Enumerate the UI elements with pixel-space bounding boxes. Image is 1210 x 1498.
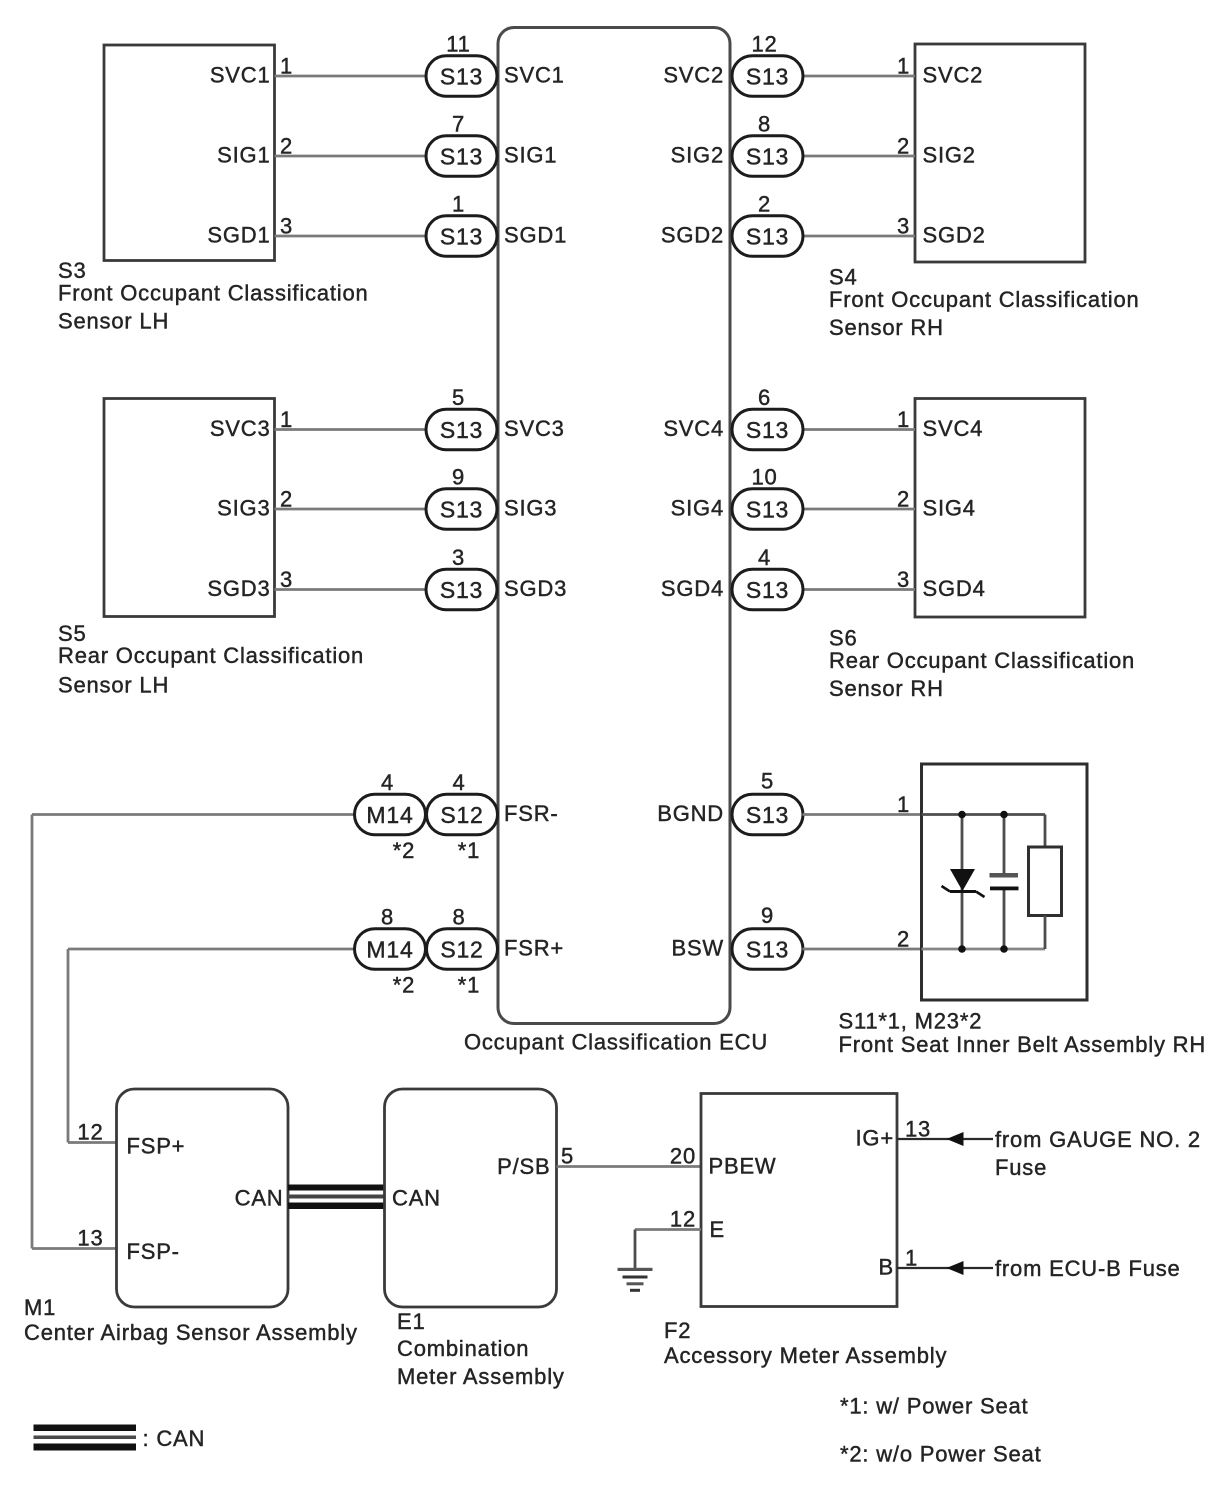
svg-text:2: 2 [280, 134, 293, 159]
svg-text:S13: S13 [746, 143, 789, 169]
svg-text:1: 1 [897, 792, 910, 817]
svg-text:SGD3: SGD3 [504, 576, 567, 601]
svg-text:S13: S13 [440, 417, 483, 443]
svg-text:*2: *2 [393, 838, 415, 863]
svg-text:13: 13 [77, 1226, 103, 1251]
svg-text:Center Airbag Sensor Assembly: Center Airbag Sensor Assembly [24, 1320, 358, 1345]
svg-text:SIG1: SIG1 [504, 143, 557, 168]
svg-text:S13: S13 [746, 802, 789, 828]
svg-text:E1: E1 [397, 1309, 426, 1334]
svg-text:1: 1 [280, 407, 293, 432]
svg-text:SGD3: SGD3 [207, 576, 270, 601]
svg-text:2: 2 [897, 134, 910, 159]
svg-text:*1: *1 [458, 838, 480, 863]
svg-text:S13: S13 [746, 496, 789, 522]
svg-text:5: 5 [761, 769, 774, 794]
svg-text:Sensor RH: Sensor RH [829, 676, 944, 701]
svg-text:SVC4: SVC4 [923, 416, 984, 441]
svg-text:*1: *1 [458, 973, 480, 998]
svg-text:BGND: BGND [657, 801, 724, 826]
svg-text:SIG1: SIG1 [217, 143, 270, 168]
svg-text:F2: F2 [664, 1318, 691, 1343]
svg-text:S3: S3 [58, 258, 87, 283]
svg-text:*2: *2 [393, 973, 415, 998]
svg-text:8: 8 [381, 905, 394, 930]
svg-text:SIG4: SIG4 [923, 496, 976, 521]
svg-text:SIG3: SIG3 [504, 496, 557, 521]
svg-text:3: 3 [452, 545, 465, 570]
svg-text:Rear Occupant Classification: Rear Occupant Classification [58, 643, 364, 668]
svg-text:9: 9 [452, 465, 465, 490]
svg-text:S4: S4 [829, 265, 858, 290]
svg-text:from GAUGE NO. 2: from GAUGE NO. 2 [995, 1127, 1201, 1152]
svg-text:8: 8 [452, 905, 465, 930]
svg-text:Meter Assembly: Meter Assembly [397, 1364, 565, 1389]
svg-text:PBEW: PBEW [709, 1154, 777, 1179]
svg-text:Fuse: Fuse [995, 1155, 1047, 1180]
svg-text:S13: S13 [440, 143, 483, 169]
svg-text:SIG2: SIG2 [671, 143, 724, 168]
svg-text:S13: S13 [746, 63, 789, 89]
svg-text:B: B [879, 1255, 894, 1280]
svg-text:4: 4 [381, 770, 394, 795]
svg-text:SGD1: SGD1 [504, 223, 567, 248]
svg-text:M14: M14 [366, 936, 413, 962]
svg-text:S13: S13 [440, 223, 483, 249]
svg-text:12: 12 [77, 1120, 103, 1145]
svg-text:9: 9 [761, 903, 774, 928]
svg-text:S13: S13 [746, 577, 789, 603]
svg-text:12: 12 [751, 32, 777, 57]
svg-text:*2: w/o Power Seat: *2: w/o Power Seat [840, 1442, 1042, 1467]
svg-text:4: 4 [452, 770, 465, 795]
svg-text:from ECU-B Fuse: from ECU-B Fuse [995, 1256, 1181, 1281]
svg-text:3: 3 [280, 567, 293, 592]
svg-text:*1: w/ Power Seat: *1: w/ Power Seat [840, 1394, 1028, 1419]
svg-text:2: 2 [897, 487, 910, 512]
svg-text:Sensor LH: Sensor LH [58, 673, 169, 698]
svg-text:S12: S12 [440, 936, 483, 962]
svg-text:11: 11 [446, 32, 470, 57]
svg-text:Front Occupant Classification: Front Occupant Classification [829, 287, 1140, 312]
svg-text:SIG2: SIG2 [923, 143, 976, 168]
svg-text:IG+: IG+ [856, 1126, 894, 1151]
svg-text:Sensor RH: Sensor RH [829, 315, 944, 340]
svg-text:S13: S13 [440, 496, 483, 522]
svg-text:SVC2: SVC2 [923, 63, 984, 88]
svg-text:S11*1, M23*2: S11*1, M23*2 [839, 1009, 983, 1034]
svg-text:S13: S13 [440, 577, 483, 603]
svg-text:13: 13 [905, 1117, 931, 1142]
svg-text:E: E [710, 1217, 725, 1242]
svg-text:SGD4: SGD4 [923, 576, 986, 601]
svg-text:1: 1 [897, 54, 910, 79]
svg-text:FSR-: FSR- [504, 801, 559, 826]
svg-text:S12: S12 [440, 802, 483, 828]
svg-text:SVC1: SVC1 [210, 63, 271, 88]
svg-text:SGD2: SGD2 [661, 223, 724, 248]
svg-text:8: 8 [758, 112, 771, 137]
svg-text:SVC2: SVC2 [663, 63, 724, 88]
svg-text:5: 5 [452, 385, 465, 410]
svg-text:SIG3: SIG3 [217, 496, 270, 521]
svg-text:M14: M14 [366, 802, 413, 828]
svg-text:2: 2 [758, 192, 771, 217]
svg-text:5: 5 [561, 1144, 574, 1169]
svg-text:S13: S13 [746, 223, 789, 249]
svg-text:12: 12 [670, 1207, 696, 1232]
svg-text:3: 3 [897, 214, 910, 239]
svg-text:7: 7 [452, 112, 465, 137]
svg-text:6: 6 [758, 385, 771, 410]
svg-text:1: 1 [897, 407, 910, 432]
svg-text:SIG4: SIG4 [671, 496, 724, 521]
svg-text:P/SB: P/SB [497, 1154, 550, 1179]
svg-text:Combination: Combination [397, 1336, 529, 1361]
svg-text:3: 3 [280, 214, 293, 239]
svg-text:SGD4: SGD4 [661, 576, 724, 601]
svg-text:1: 1 [280, 54, 293, 79]
svg-text:FSR+: FSR+ [504, 936, 564, 961]
svg-text:SVC1: SVC1 [504, 63, 565, 88]
svg-text:M1: M1 [24, 1295, 56, 1320]
svg-text:SGD1: SGD1 [207, 223, 270, 248]
svg-text:Accessory Meter Assembly: Accessory Meter Assembly [664, 1343, 947, 1368]
svg-text:Front Seat Inner Belt Assembly: Front Seat Inner Belt Assembly RH [839, 1032, 1207, 1057]
svg-text:3: 3 [897, 567, 910, 592]
svg-text:CAN: CAN [235, 1186, 284, 1211]
svg-text:SVC3: SVC3 [504, 416, 565, 441]
svg-text:FSP+: FSP+ [127, 1134, 186, 1159]
svg-text:20: 20 [670, 1144, 696, 1169]
svg-text:Front Occupant Classification: Front Occupant Classification [58, 281, 369, 306]
svg-text:1: 1 [905, 1246, 918, 1271]
svg-text:2: 2 [897, 927, 910, 952]
svg-text:SVC3: SVC3 [210, 416, 271, 441]
svg-text:FSP-: FSP- [127, 1239, 180, 1264]
svg-text:BSW: BSW [671, 936, 724, 961]
svg-text:S13: S13 [746, 936, 789, 962]
svg-text:4: 4 [758, 545, 771, 570]
svg-text:CAN: CAN [392, 1186, 441, 1211]
svg-text:S6: S6 [829, 626, 858, 651]
svg-text:1: 1 [452, 192, 465, 217]
svg-text:Rear Occupant Classification: Rear Occupant Classification [829, 648, 1135, 673]
svg-text:Occupant Classification ECU: Occupant Classification ECU [464, 1030, 768, 1055]
svg-text:: CAN: : CAN [143, 1426, 206, 1451]
svg-text:S13: S13 [440, 63, 483, 89]
svg-text:SVC4: SVC4 [663, 416, 724, 441]
svg-text:Sensor LH: Sensor LH [58, 309, 169, 334]
svg-text:2: 2 [280, 487, 293, 512]
svg-text:S13: S13 [746, 417, 789, 443]
svg-text:SGD2: SGD2 [923, 223, 986, 248]
svg-text:10: 10 [751, 465, 777, 490]
